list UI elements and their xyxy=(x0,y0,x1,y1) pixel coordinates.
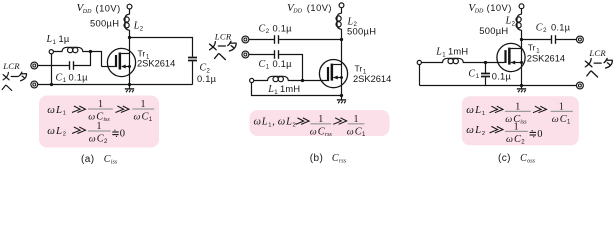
svg-text:2: 2 xyxy=(63,132,66,138)
wire L2 to drain node (b) xyxy=(341,29,343,40)
node source-ground junction (c) xyxy=(520,84,523,87)
svg-text:iss: iss xyxy=(520,119,527,125)
node source-ground junction (b) xyxy=(340,94,343,97)
capacitor C2 (b) xyxy=(274,35,276,44)
svg-text:rss: rss xyxy=(325,132,333,138)
svg-text:1: 1 xyxy=(266,65,270,71)
svg-text:LCR: LCR xyxy=(214,32,232,42)
svg-text:2: 2 xyxy=(140,26,144,32)
wire drain vertical (b) xyxy=(341,40,343,96)
formula box (b) xyxy=(250,110,390,136)
svg-text:ω: ω xyxy=(47,125,55,137)
svg-text:2SK2614: 2SK2614 xyxy=(353,74,391,84)
svg-text:ω: ω xyxy=(47,104,55,116)
svg-text:ω: ω xyxy=(89,134,96,145)
svg-text:2: 2 xyxy=(293,122,296,128)
node gate junction (a) xyxy=(89,50,92,53)
svg-text:LCR: LCR xyxy=(2,61,20,71)
wire drain node to C2 (a) xyxy=(130,38,193,57)
LCR meter terminal top (b) xyxy=(242,36,249,43)
svg-text:C: C xyxy=(259,23,266,34)
svg-text:L: L xyxy=(267,84,274,95)
svg-text:DD: DD xyxy=(82,9,92,15)
capacitor C1 (b) xyxy=(274,50,276,59)
svg-text:L: L xyxy=(474,104,481,116)
wire gate lead (b) xyxy=(303,80,328,82)
wire junction down to C1 (a) xyxy=(74,52,90,66)
svg-text:ω: ω xyxy=(466,124,474,136)
wire ground stub (a) xyxy=(129,85,131,89)
node drain (c) xyxy=(520,38,523,41)
wire VDD to L2 (a) xyxy=(129,9,131,14)
svg-text:Tr: Tr xyxy=(355,64,363,74)
svg-text:ω: ω xyxy=(310,126,317,137)
power terminal VDD (a) xyxy=(127,4,132,9)
capacitor C1 (c) xyxy=(481,73,490,75)
svg-text:L: L xyxy=(133,21,140,32)
svg-text:2: 2 xyxy=(543,28,547,34)
svg-text:1mH: 1mH xyxy=(280,84,300,94)
svg-text:2: 2 xyxy=(482,131,485,137)
svg-text:1: 1 xyxy=(268,122,271,128)
svg-text:1: 1 xyxy=(354,114,359,125)
inductor L1 (b) xyxy=(254,76,303,80)
wire gate lead (a) xyxy=(102,66,115,68)
wire bias terminal down to bottom rail (c) xyxy=(419,65,421,86)
svg-text:ω: ω xyxy=(134,112,141,123)
inductor L2 (b) xyxy=(337,13,342,29)
wire drain node to C2 (c) xyxy=(522,39,551,41)
svg-text:ω: ω xyxy=(347,126,354,137)
ground (b) xyxy=(337,100,346,103)
wire L2 to drain node (a) xyxy=(129,30,131,38)
LCR meter terminal bottom (a) xyxy=(31,81,38,88)
svg-text:DD: DD xyxy=(474,9,484,15)
node drain (a) xyxy=(128,36,131,39)
svg-text:rss: rss xyxy=(339,158,347,165)
LCR meter terminal top (c) xyxy=(576,36,583,43)
node gate junction (c) xyxy=(484,61,487,64)
wire gate riser (a) xyxy=(91,52,102,67)
svg-text:0.1µ: 0.1µ xyxy=(273,23,293,33)
svg-text:0.1µ: 0.1µ xyxy=(492,71,512,81)
wire bias terminal down to ground rail (b) xyxy=(252,83,342,96)
wire C1 to bottom rail (c) xyxy=(485,77,487,85)
svg-text:1: 1 xyxy=(98,99,103,110)
svg-text:1: 1 xyxy=(63,78,67,84)
svg-text:500µH: 500µH xyxy=(479,25,508,36)
wire C1 to LCR top terminal (a) xyxy=(38,65,69,67)
svg-text:ω: ω xyxy=(466,104,474,116)
wire ground stub (b) xyxy=(341,96,343,100)
formula a line2: omega L2 >> 1/(omega C2) ~= 0 xyxy=(47,121,125,145)
svg-text:(b): (b) xyxy=(310,153,323,164)
svg-text:(a): (a) xyxy=(81,154,94,165)
wire C1 right to gate junction (b) xyxy=(279,55,302,81)
wire VDD to L2 (c) xyxy=(521,9,523,15)
svg-text:(10V): (10V) xyxy=(487,3,512,13)
capacitor C2 (a) xyxy=(188,57,197,59)
transistor Q1 2SK2614 (a) xyxy=(107,48,135,76)
svg-text:C: C xyxy=(56,72,63,83)
svg-text:1: 1 xyxy=(482,111,485,117)
svg-text:L: L xyxy=(55,125,62,137)
svg-text:C: C xyxy=(536,22,543,33)
svg-text:C: C xyxy=(468,68,475,79)
svg-text:500µH: 500µH xyxy=(347,26,376,37)
wire drain vertical (a) xyxy=(129,38,131,85)
svg-text:L: L xyxy=(435,47,442,58)
svg-text:LCR: LCR xyxy=(588,48,606,58)
node L1 return on bottom rail (a) xyxy=(50,83,53,86)
ground (c) xyxy=(517,89,526,92)
inductor L2 (a) xyxy=(125,14,130,30)
svg-text:C: C xyxy=(200,62,207,73)
svg-text:1: 1 xyxy=(97,121,102,132)
svg-text:(10V): (10V) xyxy=(96,3,121,13)
wire L2 to drain node (c) xyxy=(521,30,523,40)
svg-text:C: C xyxy=(520,153,527,164)
inductor L1 (c) xyxy=(422,58,486,62)
formula box (a) xyxy=(39,96,159,148)
svg-text:Tr: Tr xyxy=(138,49,146,59)
transistor Q1 2SK2614 (c) xyxy=(497,43,525,71)
bias terminal open circle (c) xyxy=(417,60,421,64)
capacitor C2 (c) xyxy=(551,35,553,44)
svg-text:1: 1 xyxy=(318,114,323,125)
wire bottom rail (a) xyxy=(38,84,193,86)
svg-text:1µ: 1µ xyxy=(59,34,70,44)
svg-text:1: 1 xyxy=(559,102,564,113)
wire gate lead (c) xyxy=(486,62,505,64)
svg-text:1: 1 xyxy=(442,53,446,59)
svg-text:C: C xyxy=(332,153,339,164)
wire C2 to bottom rail (a) xyxy=(192,61,194,84)
svg-text:ω: ω xyxy=(254,117,261,128)
svg-text:oss: oss xyxy=(527,158,536,165)
svg-text:0.1µ: 0.1µ xyxy=(273,59,293,69)
svg-text:L: L xyxy=(285,117,292,128)
svg-text:L: L xyxy=(261,117,268,128)
bias terminal open circle (a) xyxy=(49,50,53,54)
svg-text:2: 2 xyxy=(512,22,516,28)
svg-text:2SK2614: 2SK2614 xyxy=(527,53,565,63)
svg-text:2SK2614: 2SK2614 xyxy=(137,59,175,69)
wire drain vertical (c) xyxy=(521,40,523,86)
svg-text:1: 1 xyxy=(141,99,146,110)
bias terminal open circle (b) xyxy=(250,78,254,82)
power terminal VDD (b) xyxy=(339,3,344,8)
svg-text:0.1µ: 0.1µ xyxy=(69,72,89,82)
wire C2 to drain node (b) xyxy=(279,39,341,41)
svg-text:(10V): (10V) xyxy=(307,3,332,13)
svg-text:Tr: Tr xyxy=(528,43,536,53)
wire capacitor C1 riser (c) xyxy=(485,63,487,74)
wire VDD to L2 (b) xyxy=(341,8,343,14)
svg-text:0: 0 xyxy=(537,129,542,140)
svg-text:L: L xyxy=(55,104,62,116)
wire C2 to LCR top terminal (c) xyxy=(556,39,577,41)
capacitor C1 (a) xyxy=(69,61,71,70)
svg-text:0.1µ: 0.1µ xyxy=(197,74,217,84)
wire bottom terminal to C1 (b) xyxy=(249,54,274,56)
svg-text:L: L xyxy=(474,124,481,136)
formula a line1: omega L1 >> 1/(omega Ciss) >> 1/(omega C1) xyxy=(47,99,154,123)
wire bias terminal down to bottom rail (a) xyxy=(51,54,53,85)
inductor L2 (c) xyxy=(517,14,522,30)
LCR meter terminal bottom (b) xyxy=(242,51,249,58)
svg-text:1: 1 xyxy=(63,111,66,117)
svg-text:,: , xyxy=(272,117,275,128)
node gate junction (b) xyxy=(301,79,304,82)
svg-text:1mH: 1mH xyxy=(448,47,468,57)
ground (a) xyxy=(125,89,134,92)
formula c line1: omega L1 >> 1/(omega Coss) >> 1/(omega C1) xyxy=(466,102,573,126)
svg-text:0.1µ: 0.1µ xyxy=(551,22,571,32)
svg-text:ω: ω xyxy=(278,117,285,128)
svg-text:1: 1 xyxy=(514,122,519,133)
svg-text:(c): (c) xyxy=(498,153,511,164)
wire bottom rail (c) xyxy=(420,85,577,87)
svg-text:ω: ω xyxy=(88,112,95,123)
LCR meter terminal top (a) xyxy=(31,62,38,69)
formula b: omega L1, omega L2 >> 1/(omega Crss) >> 1/(omega C1) xyxy=(254,114,367,138)
transistor Q1 2SK2614 (b) xyxy=(319,60,347,88)
node drain (b) xyxy=(340,38,343,41)
svg-text:iss: iss xyxy=(103,117,110,123)
svg-text:C: C xyxy=(259,59,266,70)
svg-text:C: C xyxy=(104,154,111,165)
svg-text:L: L xyxy=(46,34,53,45)
LCR meter terminal bottom (c) xyxy=(576,82,583,89)
inductor L1 (a) xyxy=(53,47,90,51)
svg-text:iss: iss xyxy=(111,158,118,165)
svg-text:2: 2 xyxy=(266,29,270,35)
svg-text:500µH: 500µH xyxy=(90,18,119,29)
formula box (c) xyxy=(462,96,579,145)
formula c line2: omega L2 >> 1/(omega C2) ~= 0 xyxy=(466,122,542,146)
svg-text:0: 0 xyxy=(120,129,125,140)
svg-text:1: 1 xyxy=(476,74,480,80)
svg-text:ω: ω xyxy=(552,114,559,125)
power terminal VDD (c) xyxy=(519,4,524,9)
wire ground stub (c) xyxy=(521,86,523,89)
svg-text:ω: ω xyxy=(505,114,512,125)
svg-text:1: 1 xyxy=(515,102,520,113)
node source-ground junction (a) xyxy=(128,83,131,86)
svg-text:1: 1 xyxy=(53,40,57,46)
wire top terminal to C2 (b) xyxy=(249,39,274,41)
svg-text:ω: ω xyxy=(506,134,513,145)
svg-text:DD: DD xyxy=(292,9,302,15)
